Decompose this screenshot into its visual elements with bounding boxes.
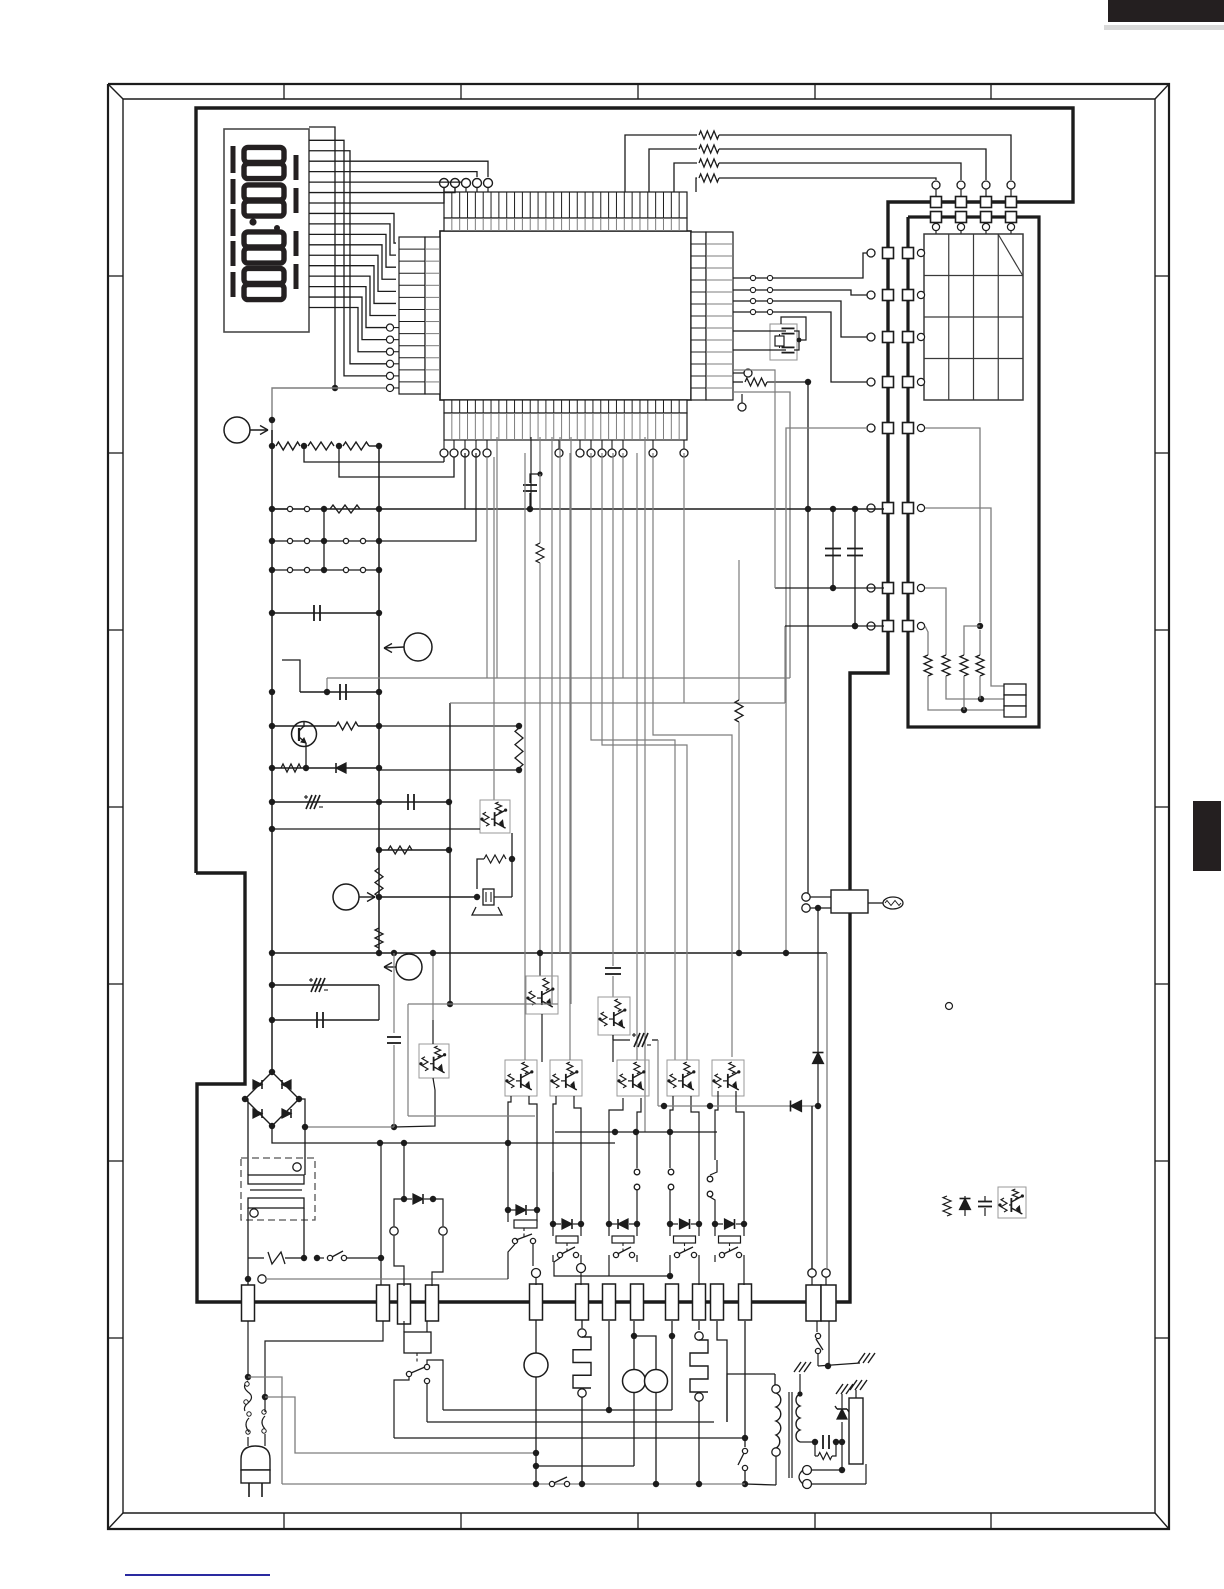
thermistor oval (883, 897, 903, 909)
resistor keypad pull-down 1 (924, 655, 932, 676)
display colon dots (249, 218, 256, 225)
AC input jack (802, 893, 810, 901)
lower board connectors rows (867, 504, 875, 512)
driver Q13 (419, 1044, 449, 1078)
frame tick marks top (283, 84, 285, 99)
switch row 2 (272, 540, 379, 542)
terminal circle T4 (396, 954, 422, 980)
emitter bus y1106 (658, 1105, 818, 1107)
relay RY2 (550, 1221, 556, 1227)
left vertical bus (271, 430, 273, 1073)
connector CN-B1 wire to plug (265, 1321, 383, 1394)
horizontal bus 5V (272, 508, 884, 510)
relay RY5 (712, 1221, 718, 1227)
HV secondary winding (797, 1391, 802, 1396)
long wire x739 resistor (738, 560, 740, 700)
row 588 wire (775, 587, 884, 589)
magnetron filament (803, 1466, 812, 1475)
transistor Q1 (292, 722, 317, 747)
display digit 3 (244, 232, 284, 247)
ground HV winding top (794, 1362, 801, 1372)
spare resistor (943, 1196, 951, 1216)
wire y1004 (408, 1003, 558, 1005)
door monitor switch right (816, 1321, 818, 1332)
turntable motor M1 (535, 1320, 537, 1353)
relay RY4 (667, 1221, 673, 1227)
hood 3-pin connector (1004, 684, 1026, 695)
HV capacitor (812, 1439, 818, 1445)
electrolytic near Q12 (612, 1035, 614, 1040)
side index black tab (1193, 801, 1221, 871)
HV transformer T2 (740, 1373, 775, 1375)
switch row 3 (272, 569, 379, 571)
wires display to IC left pins lower (309, 287, 386, 328)
row y726 with resistor (272, 725, 336, 727)
page border outer frame (108, 84, 1169, 1529)
magnetron (849, 1398, 863, 1464)
resistor row y850 (379, 849, 449, 851)
wire y1466 (536, 1465, 634, 1467)
key matrix row connectors (867, 249, 875, 257)
wire y703 (450, 702, 785, 704)
door relay RY0 coil circuit (403, 1143, 405, 1199)
frame tick marks right (1155, 275, 1169, 277)
touch key PWB outline (908, 217, 1039, 727)
AC neutral wire (247, 1258, 249, 1279)
diode on emitter bus (791, 1101, 802, 1112)
wire CN3 down (608, 1321, 610, 1410)
wire switch rows (323, 509, 325, 570)
row y768 resistor diode (272, 767, 379, 769)
display digit 2 (244, 185, 284, 200)
ground chassis 1 (858, 1353, 865, 1363)
wire IC left pin to left bus (309, 127, 335, 388)
relay feed verticals (508, 1096, 511, 1143)
frame corner diagonals (108, 84, 123, 99)
HV diode (841, 1422, 843, 1442)
resistor key line 3 (699, 159, 719, 167)
IC U1 microcomputer body (440, 231, 691, 400)
driver bank Q14-Q18 (505, 1060, 537, 1096)
transformer primary winding (248, 1175, 304, 1184)
door relay contact (406, 1371, 411, 1376)
appliance plug leads (247, 1321, 249, 1374)
fan motor switch wire (745, 1484, 776, 1485)
wires display to IC left pins upper (309, 213, 396, 243)
transformer core lines (250, 1189, 302, 1191)
IC U1 top pin row (444, 192, 687, 218)
wire CN7 down (717, 1321, 727, 1422)
page corner black header block (1108, 0, 1224, 22)
resistor key line 2 (699, 145, 719, 153)
resistor key line 1 (699, 131, 719, 139)
relay RY1 (505, 1207, 511, 1213)
terminal circle T1 (224, 417, 250, 443)
thermal cutout contacts RY3 (634, 1169, 640, 1175)
keypad corner diagonal (998, 234, 1023, 276)
ground HV diode (836, 1384, 843, 1394)
connector CN-D double (806, 1285, 821, 1321)
IC U1 left pin row (399, 237, 425, 394)
wire resistor to AC jack (807, 382, 809, 893)
door relay RY0 (404, 1332, 431, 1353)
key matrix keypad grid (924, 234, 1023, 400)
pull-down resistor feeds (964, 626, 980, 655)
wire keypad row5 left leg (786, 428, 867, 953)
spare diode (960, 1199, 971, 1210)
resistor below crystal (733, 381, 743, 383)
resistor vertical x519 (515, 728, 523, 768)
junction dots left bus (269, 443, 275, 449)
wire CN5 down (671, 1321, 673, 1410)
buzzer circuit (379, 896, 477, 898)
cap on drop x540 (539, 437, 541, 474)
clamp diode vertical (815, 905, 821, 911)
AC line fuse (247, 1208, 249, 1258)
bank feed wires from IC (524, 453, 526, 1060)
relay RY1 contact (512, 1238, 517, 1243)
open pin IC right row (744, 369, 752, 377)
junction dots second bus (376, 443, 382, 449)
power plug (241, 1446, 270, 1470)
HV bleed resistor (814, 1442, 816, 1456)
wires IC top pins to pull-up resistors (625, 135, 697, 192)
display digit 1 (244, 147, 284, 162)
heater H2 (698, 1321, 700, 1330)
display side segment bars (231, 146, 236, 173)
LV transformer T1 dashed box (241, 1158, 315, 1220)
capacitor row y692 (282, 660, 300, 692)
wires plug area to right (248, 1377, 282, 1484)
connector CN-B3 (426, 1285, 439, 1321)
transformer core (788, 1392, 790, 1478)
spare driver block (998, 1187, 1026, 1218)
third vertical bus (449, 703, 451, 1004)
spare capacitor (984, 1196, 986, 1201)
wire bridge to fuse row (380, 1143, 382, 1258)
display output wires (309, 161, 488, 177)
switch row 1 (287, 506, 292, 511)
connector CN-B2 (398, 1284, 411, 1324)
small circle spare (946, 1003, 953, 1010)
capacitor above Q12 (612, 930, 614, 966)
frame tick marks left (108, 275, 123, 277)
terminal circle T2 (404, 633, 432, 661)
display digit 4 (244, 268, 284, 283)
relay RY3 (606, 1221, 612, 1227)
control PWB outline (196, 108, 1073, 1302)
bottom bus wire (282, 1483, 745, 1485)
capacitor row y1020 (272, 1019, 379, 1021)
ground magnetron (850, 1380, 857, 1390)
wire y977 (271, 984, 273, 986)
door switch bottom (549, 1481, 554, 1486)
bridge rectifier D1-D4 (245, 1072, 299, 1126)
wire y678 (327, 677, 790, 679)
key matrix column connectors (1007, 181, 1015, 189)
resistor on drop x540b (539, 474, 541, 543)
resistor vertical bus2 y875 (375, 868, 383, 897)
resistor key line 4 (699, 174, 719, 182)
connector CN-A (242, 1285, 255, 1321)
relay top bus wires (555, 1131, 717, 1133)
row 626 wire (785, 625, 884, 627)
second vertical bus (378, 446, 380, 953)
heater H1 (581, 1320, 583, 1328)
electrolytic row y802 (272, 801, 379, 803)
wire keypad row5 to hood connector (925, 428, 980, 622)
IC bottom pin circles (443, 440, 445, 449)
resistor keypad pull-down 4 (976, 655, 984, 676)
crystal resonator X1 circuit (770, 324, 797, 360)
wires keypad rows to IC right pins (733, 253, 867, 278)
IC U1 right pin row (691, 232, 706, 400)
page border inner frame (123, 99, 1155, 1513)
filter capacitors right (830, 506, 836, 512)
connector CN-B1 (377, 1285, 390, 1321)
horizontal bus GND (272, 952, 827, 954)
frame tick marks bottom (283, 1513, 285, 1529)
faint header text band (1104, 25, 1224, 30)
open pin below IC right (738, 403, 746, 411)
capacitor on x394 (391, 950, 397, 956)
wire x494 buzzer opto feed (493, 457, 495, 800)
resistor keypad pull-down 2 (942, 655, 950, 676)
resistor vertical bus2 y928 (375, 928, 383, 948)
wire y1116 (408, 1115, 535, 1117)
display DISP1 outline (224, 129, 309, 332)
bridge wires (271, 1072, 273, 1073)
wires resistors to hood connector (928, 676, 1004, 710)
IC bottom drop wires (464, 453, 466, 509)
page link blue underline (125, 1574, 270, 1576)
oven lamps L1 L2 (633, 1321, 635, 1370)
resistor keypad pull-down 3 (960, 655, 968, 676)
driver Q12 (598, 997, 630, 1035)
wires resistor chain to IC (304, 446, 444, 462)
wire y1005 to relays (612, 1034, 614, 1036)
interlock switch AC (317, 1257, 324, 1259)
driver Q11 (526, 976, 558, 1014)
fan switch (744, 1321, 746, 1447)
drop x591 steps (591, 453, 675, 1060)
IC U1 bottom pin row (444, 400, 687, 413)
buzzer terminal T3 (333, 884, 359, 910)
IC left pin circles (386, 324, 393, 331)
electrolytic row y985 (272, 984, 379, 986)
bottom nested wires (443, 1409, 672, 1411)
capacitor row y613 (272, 612, 379, 614)
transformer secondary winding (248, 1198, 304, 1208)
connector CN-D wires (808, 1269, 816, 1277)
resistor chain R row (276, 442, 300, 450)
row y726-770 extension (379, 725, 519, 727)
jack wires (805, 506, 811, 512)
IC top round pins (440, 179, 449, 188)
buzzer driver Q10 (480, 800, 510, 833)
gray wire comb row to y678 (733, 392, 790, 678)
relay connectors (530, 1284, 543, 1320)
